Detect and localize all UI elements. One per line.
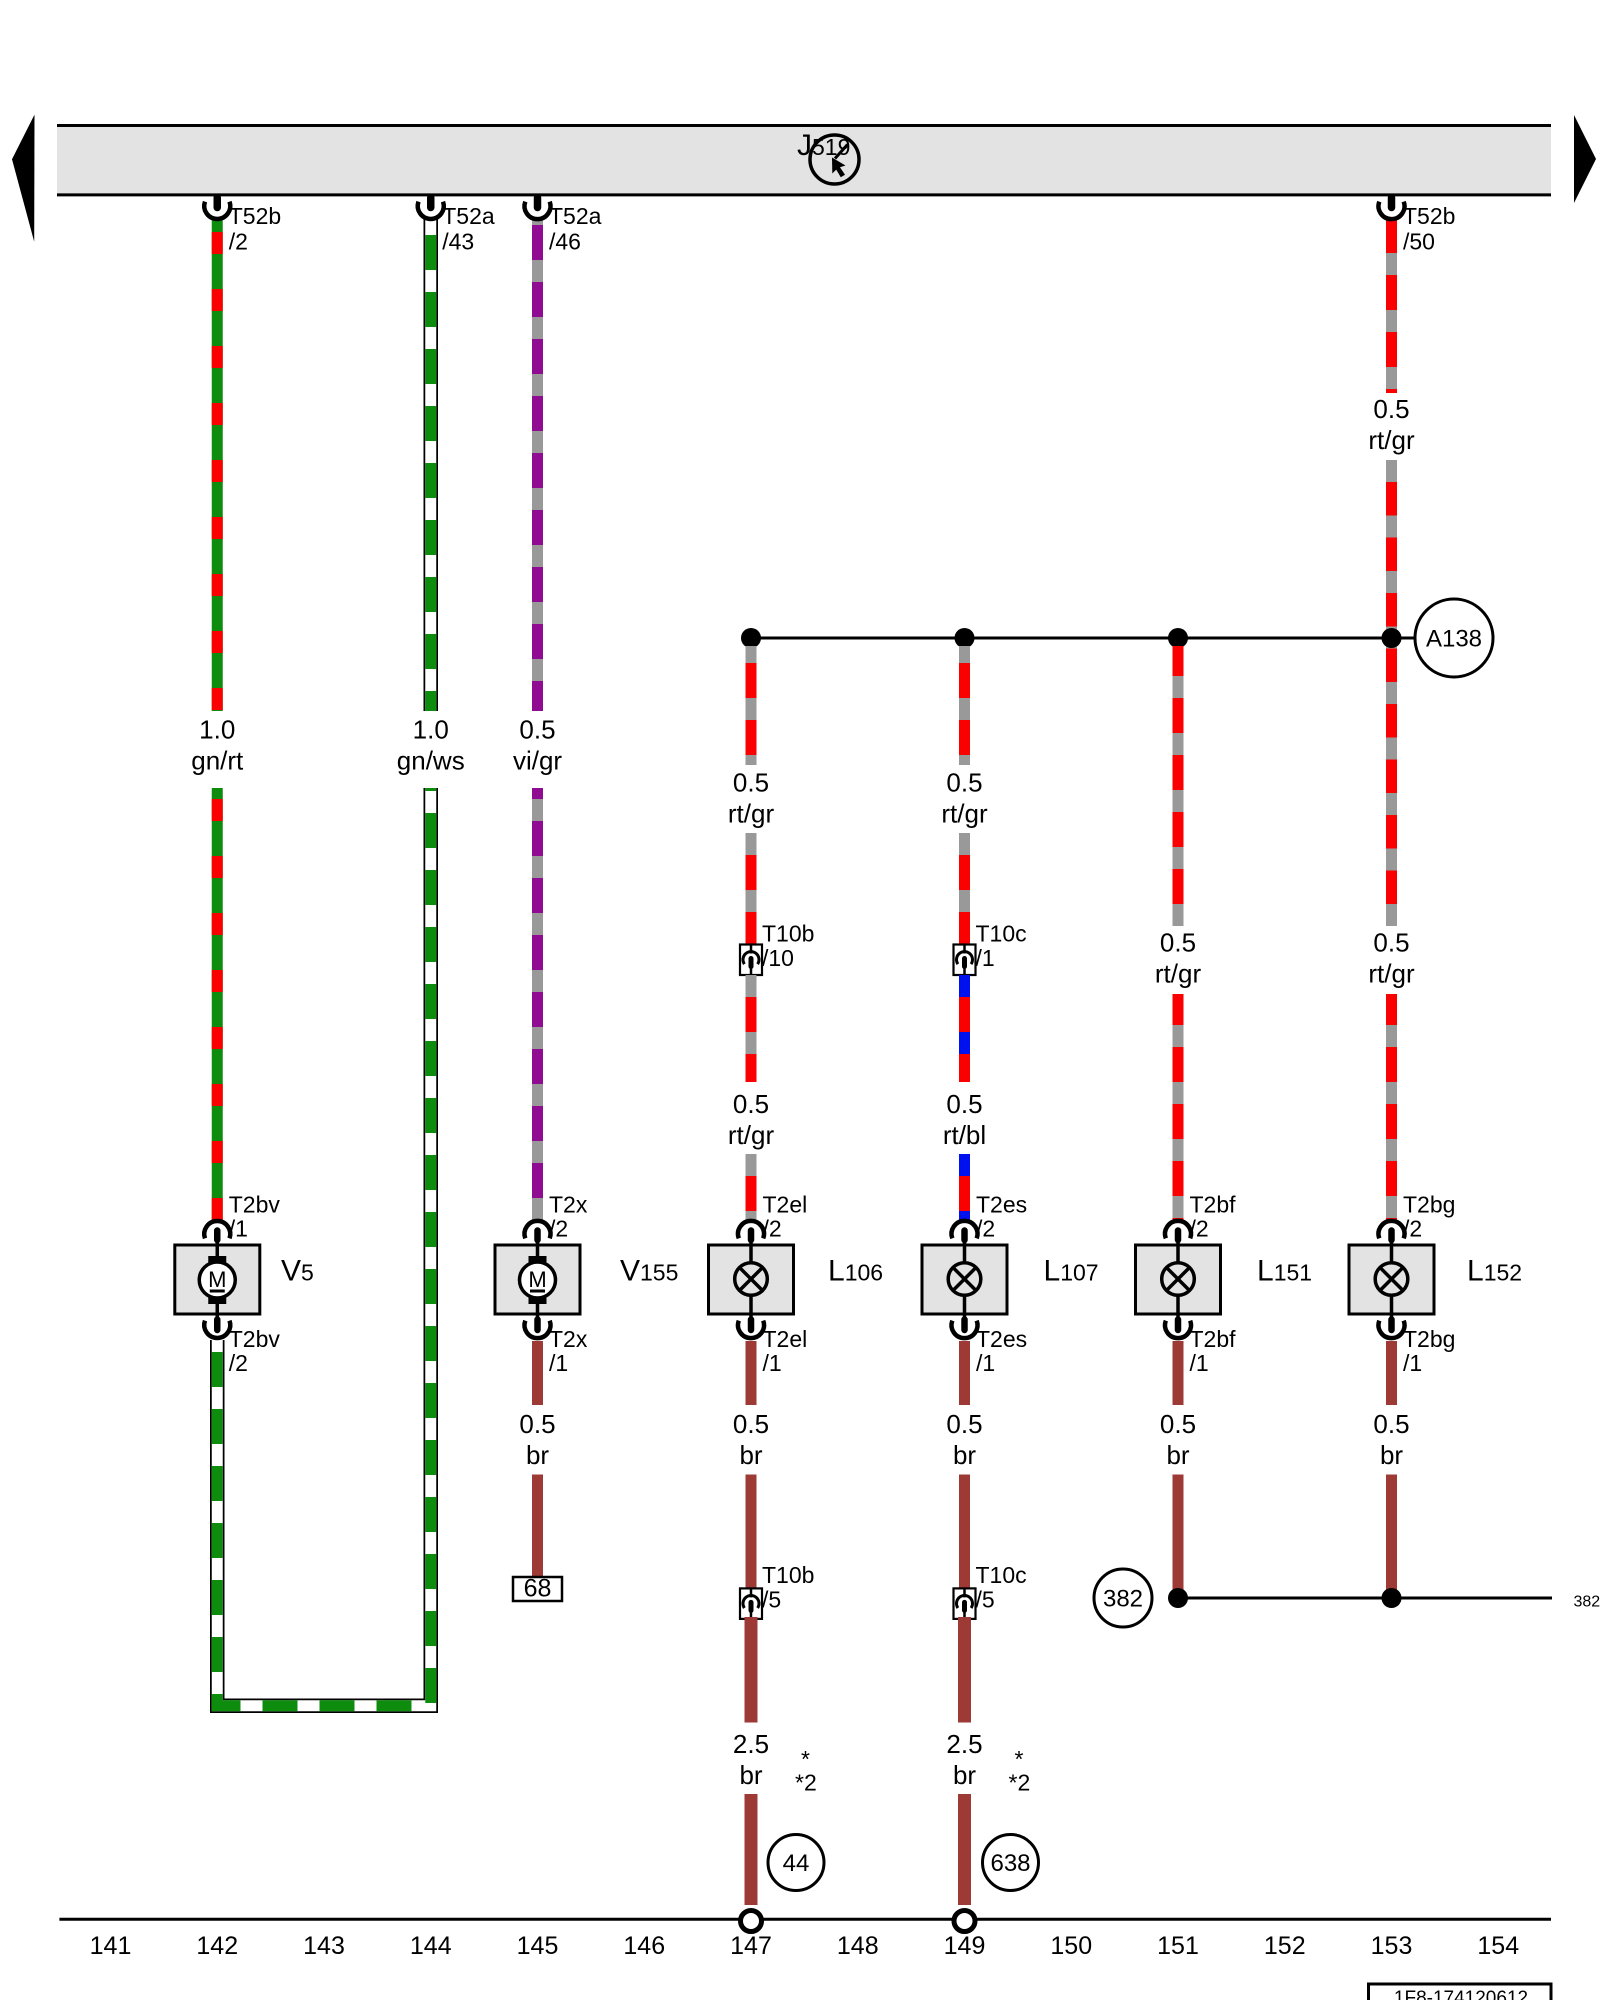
node A138 wire	[751, 637, 1416, 640]
svg-text:2.5: 2.5	[946, 1729, 982, 1759]
svg-text:T2bg: T2bg	[1403, 1192, 1455, 1218]
wire rt/bl col149 seg4	[959, 1154, 970, 1221]
svg-text:/50: /50	[1403, 229, 1435, 255]
inline connector connector T10b/5	[740, 1562, 814, 1619]
wire rt/gr col153 from bus	[1386, 218, 1397, 393]
wire rt/gr col147 seg3	[746, 975, 757, 1082]
svg-text:T2x: T2x	[549, 1192, 588, 1218]
svg-text:/2: /2	[976, 1216, 995, 1242]
svg-text:T2bv: T2bv	[229, 1326, 281, 1352]
svg-text:T52b: T52b	[229, 203, 281, 229]
svg-text:T10b: T10b	[762, 1562, 814, 1588]
svg-text:/1: /1	[549, 1350, 568, 1376]
svg-text:T2bf: T2bf	[1190, 1192, 1237, 1218]
svg-text:0.5: 0.5	[1373, 928, 1409, 958]
svg-text:T2bf: T2bf	[1190, 1326, 1237, 1352]
connector T2bg/1	[1379, 1315, 1456, 1376]
junction col147	[741, 628, 761, 648]
label 1.0 gn/ws	[397, 715, 465, 776]
wire rt/bl col149 seg3	[959, 975, 970, 1082]
wire destination 44	[768, 1835, 824, 1891]
connector T2bv/1	[204, 1192, 280, 1247]
svg-text:T2el: T2el	[763, 1326, 808, 1352]
svg-text:T52a: T52a	[442, 203, 495, 229]
wire gn/ws U-turn to V5	[217, 788, 431, 1706]
wire br upper x1178	[1173, 1341, 1184, 1405]
svg-text:0.5: 0.5	[1373, 1409, 1409, 1439]
svg-text:rt/gr: rt/gr	[1368, 425, 1415, 455]
svg-text:/2: /2	[229, 229, 248, 255]
label 2.5 br x964	[946, 1729, 982, 1790]
connector T52b/50	[1379, 198, 1456, 255]
svg-text:638: 638	[990, 1850, 1030, 1877]
junction col149	[955, 628, 975, 648]
connector T2el/1	[738, 1315, 807, 1376]
label 0.5 br x1178	[1160, 1409, 1196, 1470]
connector T2x/1	[525, 1315, 588, 1376]
wire rt/gr col147 seg2	[746, 833, 757, 945]
svg-text:br: br	[953, 1440, 976, 1470]
label 0.5 br x751	[733, 1409, 769, 1470]
inline connector connector T10b/10	[740, 921, 814, 976]
svg-text:/1: /1	[1403, 1350, 1422, 1376]
svg-text:br: br	[739, 1760, 762, 1790]
svg-text:*: *	[1015, 1746, 1024, 1772]
connector T2x/2	[525, 1192, 588, 1247]
component box L106	[709, 1245, 794, 1314]
component box V155	[495, 1245, 580, 1314]
connector T52b/2	[204, 198, 281, 255]
connector T52a/46	[525, 198, 602, 255]
component box L151	[1136, 1245, 1221, 1314]
junction col151 ground	[1168, 1588, 1188, 1608]
svg-text:0.5: 0.5	[733, 768, 769, 798]
svg-text:/5: /5	[762, 1587, 781, 1613]
svg-text:0.5: 0.5	[733, 1409, 769, 1439]
svg-text:/1: /1	[976, 1350, 995, 1376]
svg-text:147: 147	[730, 1932, 772, 1960]
wire gn/rt upper	[212, 218, 223, 711]
svg-text:1F8-174120612: 1F8-174120612	[1394, 1988, 1528, 2000]
svg-text:A138: A138	[1426, 626, 1482, 653]
svg-text:151: 151	[1157, 1932, 1199, 1960]
svg-text:0.5: 0.5	[946, 1089, 982, 1119]
wire gn/ws upper segment	[424, 218, 439, 711]
junction col153	[1382, 628, 1402, 648]
wire rt/gr col147 seg4	[746, 1154, 757, 1221]
svg-text:68: 68	[524, 1575, 552, 1603]
lamp symbol L151	[1162, 1246, 1195, 1313]
connector T2es/1	[952, 1315, 1028, 1376]
svg-text:2.5: 2.5	[733, 1729, 769, 1759]
svg-text:gn/ws: gn/ws	[397, 746, 465, 776]
connector T52a/43	[418, 198, 495, 255]
component box L152	[1349, 1245, 1434, 1314]
label 0.5 rt/gr col153 upper	[1368, 394, 1415, 455]
svg-text:M: M	[528, 1267, 546, 1292]
svg-text:rt/gr: rt/gr	[728, 799, 775, 829]
svg-text:/5: /5	[976, 1587, 995, 1613]
svg-text:143: 143	[303, 1932, 345, 1960]
ground wire 382	[1178, 1597, 1552, 1600]
wire rt/gr col153 mid	[1386, 460, 1397, 926]
inline connector connector T10c/5	[954, 1562, 1027, 1619]
svg-text:T52b: T52b	[1403, 203, 1455, 229]
label 2.5 br x751	[733, 1729, 769, 1790]
svg-text:/2: /2	[229, 1350, 248, 1376]
svg-text:152: 152	[1264, 1932, 1306, 1960]
svg-text:br: br	[1380, 1440, 1403, 1470]
svg-text:0.5: 0.5	[733, 1089, 769, 1119]
label 0.5 br x537	[519, 1409, 555, 1470]
wire br lower x751	[746, 1475, 757, 1589]
ground label 382 circle	[1094, 1569, 1152, 1627]
wire 2.5br lower x751	[745, 1794, 758, 1905]
svg-text:142: 142	[196, 1932, 238, 1960]
svg-text:L106: L106	[828, 1255, 883, 1288]
svg-text:44: 44	[783, 1850, 810, 1877]
svg-text:rt/gr: rt/gr	[728, 1120, 775, 1150]
label 0.5 rt/gr col149	[941, 768, 988, 829]
svg-text:1.0: 1.0	[413, 715, 449, 745]
svg-text:rt/gr: rt/gr	[1155, 959, 1202, 989]
junction col153 ground	[1382, 1588, 1402, 1608]
part number box 1F8-174120612	[1369, 1984, 1552, 2000]
label 1.0 gn/rt	[191, 715, 244, 776]
svg-text:/43: /43	[442, 229, 474, 255]
svg-text:T2bv: T2bv	[229, 1192, 281, 1218]
label 0.5 rt/bl col149	[943, 1089, 986, 1150]
svg-text:0.5: 0.5	[946, 768, 982, 798]
clickable-function icon	[810, 135, 859, 184]
svg-text:/10: /10	[762, 945, 794, 971]
connector T2el/2	[738, 1192, 807, 1247]
wire br upper x964	[959, 1341, 970, 1405]
svg-text:*: *	[801, 1746, 810, 1772]
lamp symbol L106	[735, 1246, 768, 1313]
connector T2es/2	[952, 1192, 1028, 1247]
wire 2.5br upper x751	[745, 1617, 758, 1723]
wire br upper x751	[746, 1341, 757, 1405]
svg-text:153: 153	[1371, 1932, 1413, 1960]
wire rt/gr col153 seg3	[1386, 994, 1397, 1221]
svg-text:148: 148	[837, 1932, 879, 1960]
svg-text:/2: /2	[1403, 1216, 1422, 1242]
wire rt/gr col151 seg1	[1173, 646, 1184, 926]
svg-text:T2es: T2es	[976, 1326, 1027, 1352]
grid numbers 141-154	[90, 1932, 1520, 1960]
svg-text:/2: /2	[763, 1216, 782, 1242]
label 0.5 br x1391	[1373, 1409, 1409, 1470]
svg-text:145: 145	[517, 1932, 559, 1960]
component box V5	[175, 1245, 260, 1314]
svg-text:M: M	[208, 1267, 226, 1292]
svg-text:T10b: T10b	[762, 921, 814, 947]
wire br lower x537	[532, 1475, 543, 1578]
motor symbol V155	[520, 1246, 556, 1313]
svg-text:T10c: T10c	[976, 921, 1027, 947]
svg-text:V155: V155	[620, 1255, 678, 1288]
inline connector connector T10c/1	[954, 921, 1027, 976]
wire 2.5br lower x964	[958, 1794, 971, 1905]
connector T2bv/2	[204, 1315, 280, 1376]
svg-text:L152: L152	[1467, 1255, 1522, 1288]
wire gn/rt lower	[212, 788, 223, 1221]
wire br lower x964	[959, 1475, 970, 1589]
svg-text:br: br	[1166, 1440, 1189, 1470]
svg-text:/2: /2	[549, 1216, 568, 1242]
svg-text:br: br	[526, 1440, 549, 1470]
svg-text:rt/gr: rt/gr	[941, 799, 988, 829]
svg-text:vi/gr: vi/gr	[513, 746, 562, 776]
svg-text:T2es: T2es	[976, 1192, 1027, 1218]
svg-text:rt/bl: rt/bl	[943, 1120, 986, 1150]
svg-text:146: 146	[623, 1932, 665, 1960]
wire vi/gr upper	[532, 218, 543, 711]
svg-text:382: 382	[1574, 1594, 1600, 1611]
wire br lower x1391	[1386, 1475, 1397, 1598]
wire br upper x1391	[1386, 1341, 1397, 1405]
right continuation arrow	[1574, 115, 1596, 203]
terminal col147	[741, 1911, 762, 1932]
label 0.5 rt/gr col147	[728, 768, 775, 829]
wire rt/gr col149 seg2	[959, 833, 970, 945]
svg-text:/1: /1	[763, 1350, 782, 1376]
wire destination 638	[983, 1835, 1039, 1891]
label 0.5 vi/gr	[513, 715, 562, 776]
svg-text:141: 141	[90, 1932, 132, 1960]
svg-text:1.0: 1.0	[199, 715, 235, 745]
svg-text:T52a: T52a	[549, 203, 602, 229]
svg-text:rt/gr: rt/gr	[1368, 959, 1415, 989]
svg-text:/46: /46	[549, 229, 581, 255]
svg-text:br: br	[953, 1760, 976, 1790]
junction col151	[1168, 628, 1188, 648]
terminal 68	[513, 1575, 562, 1603]
motor symbol V5	[199, 1246, 235, 1313]
label 0.5 br x964	[946, 1409, 982, 1470]
wire rt/gr col147 seg1	[746, 646, 757, 765]
svg-text:/2: /2	[1190, 1216, 1209, 1242]
label 0.5 rt/gr col151	[1155, 928, 1202, 989]
svg-text:0.5: 0.5	[519, 1409, 555, 1439]
svg-text:br: br	[739, 1440, 762, 1470]
svg-text:L107: L107	[1044, 1255, 1099, 1288]
bottom rail	[59, 1918, 1551, 1921]
svg-text:*2: *2	[1009, 1770, 1031, 1796]
wire rt/gr col149 seg1	[959, 646, 970, 765]
lamp symbol L152	[1375, 1246, 1408, 1313]
bus bar J519	[57, 124, 1551, 196]
lamp symbol L107	[948, 1246, 981, 1313]
svg-text:T10c: T10c	[976, 1562, 1027, 1588]
terminal col149	[954, 1911, 975, 1932]
label 0.5 rt/gr col147 lower	[728, 1089, 775, 1150]
left continuation arrow	[12, 115, 35, 242]
svg-text:/1: /1	[976, 945, 995, 971]
svg-text:0.5: 0.5	[1160, 928, 1196, 958]
svg-text:V5: V5	[281, 1255, 314, 1288]
connector T2bf/1	[1165, 1315, 1236, 1376]
component box L107	[922, 1245, 1007, 1314]
svg-text:0.5: 0.5	[946, 1409, 982, 1439]
svg-text:T2el: T2el	[763, 1192, 808, 1218]
svg-text:149: 149	[944, 1932, 986, 1960]
svg-text:*2: *2	[795, 1770, 817, 1796]
svg-text:0.5: 0.5	[519, 715, 555, 745]
svg-text:150: 150	[1050, 1932, 1092, 1960]
svg-text:T2bg: T2bg	[1403, 1326, 1455, 1352]
svg-text:J519: J519	[797, 129, 850, 162]
svg-text:0.5: 0.5	[1373, 394, 1409, 424]
wire rt/gr col151 seg2	[1173, 994, 1184, 1221]
wire br lower x1178	[1173, 1475, 1184, 1598]
wire vi/gr lower	[532, 788, 543, 1221]
svg-text:L151: L151	[1257, 1255, 1312, 1288]
svg-text:382: 382	[1103, 1586, 1143, 1613]
svg-text:0.5: 0.5	[1160, 1409, 1196, 1439]
svg-text:gn/rt: gn/rt	[191, 746, 244, 776]
wire br upper x537	[532, 1341, 543, 1405]
svg-text:154: 154	[1477, 1932, 1519, 1960]
svg-text:T2x: T2x	[549, 1326, 588, 1352]
wire 2.5br upper x964	[958, 1617, 971, 1723]
node label A138	[1415, 599, 1493, 677]
svg-text:144: 144	[410, 1932, 452, 1960]
svg-text:/1: /1	[1190, 1350, 1209, 1376]
connector T2bf/2	[1165, 1192, 1236, 1247]
svg-text:/1: /1	[229, 1216, 248, 1242]
label 0.5 rt/gr col153 lower	[1368, 928, 1415, 989]
connector T2bg/2	[1379, 1192, 1456, 1247]
